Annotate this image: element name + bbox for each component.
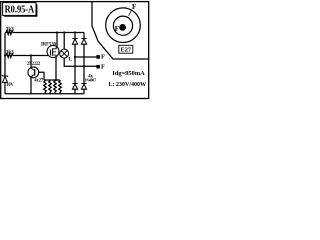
svg-text:4x27: 4x27 [34,78,43,83]
svg-text:3k3: 3k3 [6,27,14,33]
svg-text:F: F [132,3,136,11]
svg-text:3k3: 3k3 [6,50,14,56]
svg-text:R0.95-A: R0.95-A [5,4,35,15]
svg-text:L: L [68,57,72,63]
svg-text:IRF530: IRF530 [41,41,56,47]
svg-text:F: F [101,54,105,61]
svg-text:1N4007: 1N4007 [85,77,97,82]
svg-text:F: F [115,25,119,33]
svg-text:E27: E27 [121,47,132,54]
svg-text:L: 230V/400W: L: 230V/400W [109,82,147,88]
svg-text:2N2222: 2N2222 [27,61,40,67]
svg-text:10V: 10V [6,83,14,88]
svg-text:Idg=950mA: Idg=950mA [112,71,145,77]
svg-text:F: F [101,63,105,70]
